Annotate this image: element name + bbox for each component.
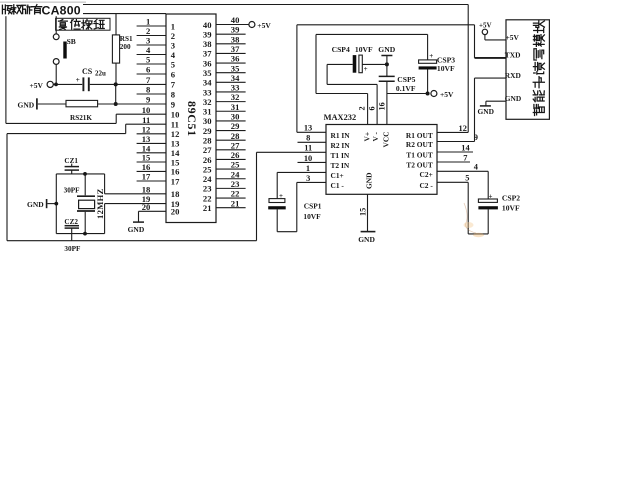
wire module TXD run (top) [297, 24, 475, 26]
wire MAX232 pin15 GND lead [367, 194, 369, 231]
svg-text:200: 200 [120, 43, 131, 51]
svg-text:+5V: +5V [440, 90, 454, 99]
svg-text:R2 IN: R2 IN [331, 141, 351, 150]
label box 复位按钮 [56, 18, 110, 30]
svg-text:CSP4: CSP4 [332, 45, 350, 54]
svg-text:+5V: +5V [257, 21, 271, 30]
node: junction RS2/pin9 [114, 102, 118, 106]
wire V+ loop top run [316, 33, 428, 35]
svg-text:5: 5 [465, 174, 469, 183]
svg-text:18: 18 [171, 189, 180, 199]
MAX232 inner labels left [331, 131, 351, 190]
wire 89C51 pin 35 stub [216, 72, 246, 74]
wire 89C51 pin 38 stub [216, 43, 246, 45]
svg-text:5: 5 [146, 55, 150, 65]
wire 89C51 pin 33 stub [216, 91, 246, 93]
capacitor CZ1 30PF [64, 157, 81, 195]
svg-text:T2 OUT: T2 OUT [406, 161, 433, 170]
wire RS1 junction down to pin9 row [115, 84, 117, 104]
svg-text:4: 4 [171, 50, 176, 60]
89C51 left pin numbers inner [171, 21, 180, 216]
svg-text:8: 8 [146, 85, 151, 95]
svg-text:GND: GND [378, 45, 395, 54]
svg-text:31: 31 [203, 107, 212, 117]
svg-text:16: 16 [171, 167, 180, 177]
svg-text:36: 36 [231, 54, 240, 64]
svg-text:10VF: 10VF [437, 64, 455, 73]
wire 89C51 pin 36 stub [216, 62, 246, 64]
wire pin9 riser to module RXD [474, 78, 476, 141]
svg-text:9: 9 [171, 99, 175, 109]
svg-text:GND: GND [18, 101, 35, 110]
op-amp U2: transceiver IC MAX232 [324, 113, 437, 194]
smart card reader module 智能卡读写模块 [506, 20, 549, 120]
svg-text:TXD: TXD [505, 51, 521, 60]
svg-text:11: 11 [171, 120, 179, 130]
svg-text:32: 32 [203, 97, 212, 107]
svg-text:SB: SB [67, 37, 76, 46]
svg-text:40: 40 [203, 20, 212, 30]
svg-text:R2 OUT: R2 OUT [406, 140, 433, 149]
svg-text:GND: GND [358, 235, 375, 244]
svg-text:22: 22 [231, 189, 240, 199]
wire RXD net: bottom run to pin10 riser [6, 122, 116, 124]
wire TXD net: left vertical [6, 134, 8, 241]
wire 89C51 pin 27 stub [216, 149, 246, 151]
svg-text:GND: GND [128, 225, 145, 234]
node: junction RS1 bottom [114, 82, 118, 86]
wire 89C51 pin 1 stub [137, 25, 166, 27]
svg-text:CA800: CA800 [42, 3, 81, 17]
svg-text:29: 29 [231, 121, 240, 131]
capacitor CSP3 10VF [419, 52, 456, 93]
capacitor CSP2 10VF [468, 182, 520, 234]
wire V+ loop bottom [316, 93, 368, 95]
wire 89C51 pin10 stub [116, 113, 166, 115]
ground GND (pin20) [128, 222, 145, 234]
svg-text:16: 16 [377, 102, 386, 110]
svg-text:CSP5: CSP5 [397, 75, 415, 84]
wire MAX232 pin14 stub [437, 151, 473, 153]
svg-text:3: 3 [146, 36, 150, 46]
svg-text:MAX232: MAX232 [324, 113, 357, 122]
svg-text:7: 7 [146, 75, 151, 85]
svg-text:7: 7 [463, 153, 467, 162]
wire 89C51 pin 12 stub [137, 133, 166, 135]
node: junction crystal top [83, 172, 87, 176]
svg-text:31: 31 [231, 102, 240, 112]
svg-text:24: 24 [231, 169, 240, 179]
svg-text:16: 16 [142, 162, 151, 172]
svg-text:GND: GND [27, 200, 44, 209]
wire TXD net: bottom run [7, 240, 257, 242]
svg-text:15: 15 [358, 208, 367, 216]
svg-text:20: 20 [171, 207, 180, 217]
wire TXD net: step down [125, 124, 127, 133]
svg-text:+: + [364, 65, 368, 73]
svg-text:R1 OUT: R1 OUT [406, 131, 433, 140]
node: junction CSP4 / GND [385, 62, 389, 66]
wire MAX232 pin9 R2OUT stub [437, 141, 475, 143]
wire +5V run to VCC riser [387, 93, 428, 95]
wire 89C51 pin 24 stub [216, 178, 246, 180]
svg-text:89C51: 89C51 [185, 101, 199, 137]
svg-text:6: 6 [171, 69, 176, 79]
wire RXD net: left border vertical [5, 5, 7, 124]
+5V supply (MAX232) [431, 90, 454, 99]
svg-text:12: 12 [142, 124, 151, 134]
wire TXD riser at module side [474, 25, 476, 58]
wire 89C51 pin 13 stub [137, 142, 166, 144]
svg-text:1: 1 [146, 17, 150, 27]
wire crystal box right edge upper (to pin18) [104, 174, 106, 194]
svg-text:18: 18 [142, 184, 151, 194]
wire MAX232 pin6 V- riser [376, 84, 378, 124]
capacitor CZ2 30PF [64, 218, 81, 253]
wire 89C51 pin 23 stub [216, 187, 246, 189]
wire 89C51 pin 2 stub [137, 35, 166, 37]
svg-text:+5V: +5V [506, 33, 520, 42]
svg-text:13: 13 [304, 124, 312, 133]
MAX232 top pin numbers 2 6 16 [358, 102, 387, 110]
wire pin1 riser down to CSP1 [276, 172, 278, 198]
svg-text:10: 10 [142, 105, 151, 115]
wire RXD net: top border from MAX232 R1OUT riser to left edge [6, 4, 468, 6]
node: junction crystal bottom [83, 232, 87, 236]
svg-text:17: 17 [171, 176, 180, 186]
wire MAX232 pin10 stub [298, 161, 327, 163]
svg-text:8: 8 [306, 134, 310, 143]
svg-text:RS1: RS1 [120, 35, 133, 43]
wire 89C51 pin 29 stub [216, 130, 246, 132]
svg-text:29: 29 [203, 126, 212, 136]
svg-text:33: 33 [231, 83, 240, 93]
crystal Y1 12MHZ [77, 174, 105, 234]
svg-text:11: 11 [304, 144, 312, 153]
svg-text:12: 12 [171, 129, 180, 139]
svg-text:12: 12 [459, 124, 467, 133]
+5V supply at pin 40 [249, 21, 271, 30]
artifact smudge [464, 203, 485, 237]
wire V+ loop left vertical [315, 34, 317, 93]
wire 89C51 pin 30 stub [216, 120, 246, 122]
wire crystal box top edge [56, 173, 104, 175]
wire CSP3 top lead [427, 34, 429, 60]
svg-text:T1 IN: T1 IN [331, 151, 350, 160]
wire MAX232 pin3 stub [297, 181, 326, 183]
svg-text:40: 40 [231, 15, 240, 25]
svg-text:14: 14 [461, 143, 470, 152]
svg-text:2: 2 [358, 106, 367, 110]
svg-text:8: 8 [171, 89, 176, 99]
svg-text:9: 9 [146, 95, 150, 105]
svg-text:25: 25 [203, 164, 212, 174]
wire 89C51 pin 40 to +5V [216, 24, 249, 26]
node: junction GND / crystal box [54, 202, 58, 206]
svg-text:22u: 22u [95, 69, 106, 77]
svg-text:2: 2 [146, 26, 150, 36]
wire TXD net: run left [7, 133, 126, 135]
svg-text:10: 10 [171, 110, 180, 120]
op-amp U1: microcontroller IC 89C51 [166, 14, 216, 223]
svg-text:34: 34 [231, 73, 240, 83]
wire reset top rail [56, 13, 166, 15]
svg-text:30PF: 30PF [64, 245, 81, 253]
wire TXD net: riser to MAX232 T1IN [256, 152, 258, 240]
wire 89C51 pin11 stub [126, 123, 166, 125]
svg-text:C1+: C1+ [331, 171, 344, 180]
svg-text:V -: V - [371, 131, 380, 141]
wire MAX232 pin8 stub [298, 141, 327, 143]
wire RXD to module [475, 77, 507, 79]
wire 89C51 pin20 to ground [139, 211, 167, 222]
+5V supply terminal [30, 81, 54, 90]
wire MAX232 pin4 stub [437, 170, 488, 172]
wire 89C51 pin 28 stub [216, 139, 246, 141]
wire 89C51 pin 37 stub [216, 52, 246, 54]
svg-text:38: 38 [203, 39, 212, 49]
wire MAX232 pin2 V+ riser [367, 94, 369, 125]
svg-text:RXD: RXD [505, 71, 521, 80]
svg-text:C2+: C2+ [420, 170, 433, 179]
wire V- loop bottom [327, 83, 377, 85]
capacitor CSP4 10VF [332, 45, 387, 73]
svg-text:37: 37 [203, 49, 212, 59]
89C51 right pin numbers outer [231, 15, 240, 208]
wire 89C51 pin 39 stub [216, 33, 246, 35]
svg-text:2: 2 [171, 31, 175, 41]
wire pin4 riser down to CSP2 [487, 171, 489, 199]
capacitor CSP5 0.1VF [379, 75, 416, 93]
MAX232 left pin numbers [304, 124, 312, 183]
svg-text:37: 37 [231, 44, 240, 54]
svg-text:33: 33 [203, 87, 212, 97]
wire V- loop left vertical [326, 64, 328, 84]
svg-text:7: 7 [171, 80, 176, 90]
svg-text:21: 21 [203, 203, 212, 213]
ground GND (reset) [18, 98, 37, 109]
ground GND (top) [378, 45, 395, 76]
svg-text:CSP2: CSP2 [502, 193, 520, 202]
wire 89C51 pin 8 stub [137, 93, 166, 95]
wire 89C51 pin 6 stub [137, 73, 166, 75]
svg-text:11: 11 [142, 115, 150, 125]
wire 89C51 pin 4 stub [137, 54, 166, 56]
svg-text:21: 21 [231, 198, 240, 208]
svg-text:35: 35 [203, 68, 212, 78]
svg-text:C2 -: C2 - [419, 181, 433, 190]
svg-text:4: 4 [146, 45, 151, 55]
svg-text:32: 32 [231, 92, 240, 102]
svg-text:34: 34 [203, 78, 212, 88]
svg-text:1: 1 [306, 164, 310, 173]
ground GND (pin15) [358, 232, 375, 245]
svg-text:26: 26 [231, 150, 240, 160]
wire 89C51 pin 5 stub [137, 63, 166, 65]
svg-text:6: 6 [146, 65, 151, 75]
wire V- loop run to CSP4 [327, 63, 353, 65]
MAX232 inner labels right [406, 131, 433, 190]
wire TXD into module [475, 57, 507, 59]
svg-text:35: 35 [231, 63, 240, 73]
wire crystal box left edge [55, 174, 57, 234]
svg-text:30PF: 30PF [64, 187, 81, 195]
89C51 right pin numbers inner [203, 20, 212, 213]
wire crystal box bottom edge [56, 233, 104, 235]
node: junction CSP3 / +5V [426, 92, 430, 96]
svg-text:25: 25 [231, 160, 240, 170]
89C51 left pin numbers outer [142, 17, 151, 212]
svg-text:17: 17 [142, 172, 151, 182]
MAX232 right pin numbers [459, 124, 479, 183]
wire MAX232 pin12 riser to top border [467, 5, 469, 133]
ground GND (module) [478, 106, 494, 116]
svg-text:10VF: 10VF [502, 204, 520, 213]
svg-text:C1 -: C1 - [331, 181, 345, 190]
capacitor CS 22u [53, 67, 166, 91]
svg-text:28: 28 [231, 131, 240, 141]
wire 89C51 pin 34 stub [216, 81, 246, 83]
svg-text:38: 38 [231, 34, 240, 44]
svg-text:T1 OUT: T1 OUT [406, 151, 433, 160]
svg-text:39: 39 [203, 29, 212, 39]
wire MAX232 pin7 stub [437, 161, 470, 163]
node: junction SB/CS/RS1 [54, 83, 58, 87]
switch SB [53, 14, 75, 85]
svg-text:+: + [76, 75, 80, 84]
wire MAX232 pin1 stub [277, 171, 326, 173]
svg-text:RS21K: RS21K [70, 114, 92, 122]
wire MAX232 pin5 stub [437, 181, 468, 183]
svg-text:28: 28 [203, 135, 212, 145]
svg-text:VCC: VCC [382, 131, 391, 147]
svg-text:5: 5 [171, 59, 175, 69]
ground GND (crystal) [27, 199, 56, 209]
svg-text:CS: CS [82, 67, 93, 76]
wire RXD net: riser up to pin 10 row [115, 114, 117, 123]
svg-text:24: 24 [203, 174, 212, 184]
wire 89C51 pin 26 stub [216, 158, 246, 160]
wire MAX232 pin13 stub [297, 131, 326, 133]
wire MAX232 pin12 R1OUT stub [437, 131, 468, 133]
+5V supply (module) [479, 22, 506, 40]
wire 89C51 pin 3 stub [137, 44, 166, 46]
svg-text:10: 10 [304, 154, 312, 163]
svg-text:27: 27 [231, 140, 240, 150]
resistor RS2 1K [38, 100, 166, 122]
wire 89C51 pin 31 stub [216, 110, 246, 112]
wire pin18 to crystal [105, 193, 166, 195]
svg-text:CZ2: CZ2 [64, 218, 78, 226]
svg-text:GND: GND [505, 94, 521, 103]
MAX232 inner labels V+ V- VCC GND [363, 131, 391, 189]
svg-text:12MHZ: 12MHZ [95, 188, 105, 219]
wire riser down to MAX232 pin13 R1IN [296, 25, 298, 133]
wire 89C51 pin 25 stub [216, 168, 246, 170]
svg-text:GND: GND [478, 107, 494, 116]
wire 89C51 pin 21 stub [216, 207, 246, 209]
capacitor CSP1 10VF [268, 182, 322, 231]
wire pin19 to crystal [105, 203, 166, 205]
svg-text:+: + [429, 52, 433, 60]
resistor RS1 200 [112, 14, 133, 85]
svg-text:T2 IN: T2 IN [331, 161, 350, 170]
wire 89C51 pin 32 stub [216, 101, 246, 103]
svg-text:3: 3 [171, 40, 175, 50]
svg-text:0.1VF: 0.1VF [396, 84, 416, 93]
svg-text:1: 1 [171, 21, 175, 31]
wire 89C51 pin 14 stub [137, 152, 166, 154]
svg-text:36: 36 [203, 58, 212, 68]
wire MAX232 pin11 T1IN stub [257, 151, 327, 153]
svg-text:GND: GND [365, 173, 374, 189]
svg-text:CSP1: CSP1 [304, 202, 322, 211]
svg-text:10VF: 10VF [303, 212, 321, 221]
svg-text:22: 22 [203, 193, 212, 203]
wire VCC pin16 riser [386, 81, 388, 124]
svg-text:30: 30 [203, 116, 212, 126]
wire 89C51 pin 17 stub [137, 180, 166, 182]
svg-text:R1 IN: R1 IN [331, 131, 351, 140]
svg-text:10VF: 10VF [355, 45, 373, 54]
svg-text:+5V: +5V [30, 81, 44, 90]
svg-text:6: 6 [367, 106, 376, 110]
wire crystal box right edge lower (to pin19) [104, 204, 106, 234]
svg-text:3: 3 [306, 174, 310, 183]
watermark 版权所有CA800 [0, 2, 86, 17]
svg-text:30: 30 [231, 112, 240, 122]
wire 89C51 pin 15 stub [137, 161, 166, 163]
svg-text:23: 23 [231, 179, 240, 189]
svg-text:39: 39 [231, 25, 240, 35]
svg-text:27: 27 [203, 145, 212, 155]
svg-text:26: 26 [203, 155, 212, 165]
svg-text:+5V: +5V [479, 22, 492, 30]
wire 89C51 pin 16 stub [137, 170, 166, 172]
svg-text:23: 23 [203, 184, 212, 194]
wire 89C51 pin 22 stub [216, 197, 246, 199]
wire module GND lead [486, 101, 506, 106]
